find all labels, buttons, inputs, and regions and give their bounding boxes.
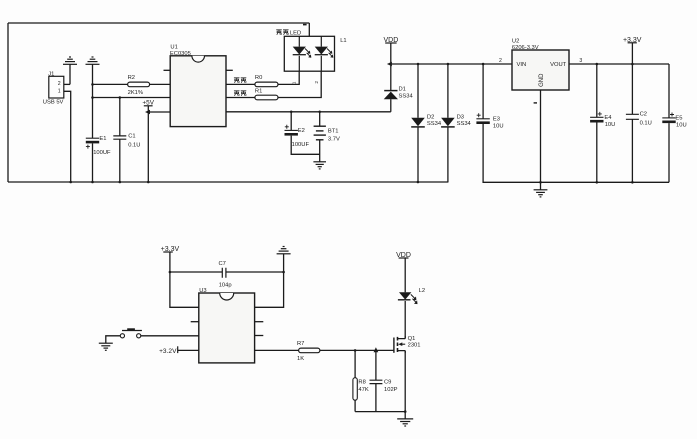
- junction dot C1 top: [119, 96, 122, 99]
- svg-text:10U: 10U: [605, 122, 616, 128]
- svg-text:U1: U1: [170, 44, 177, 50]
- wire U1 pin row3 to +5V: [148, 111, 170, 113]
- svg-text:2301: 2301: [408, 342, 421, 348]
- capacitor E5 10U: [662, 113, 686, 129]
- ground at Q1: [397, 419, 413, 426]
- svg-text:E3: E3: [493, 116, 500, 122]
- svg-text:10U: 10U: [676, 123, 687, 129]
- arrow terminal at +5V node: [145, 110, 150, 115]
- wire bottom rail A: [8, 181, 448, 183]
- op-chip U1 EC0305: [170, 44, 226, 126]
- wire +5V stem down to rail: [147, 106, 149, 182]
- svg-text:E4: E4: [604, 115, 612, 121]
- wire Q1 ground stem: [404, 412, 406, 419]
- label charge (CJK): [234, 78, 240, 83]
- wire E2 stem top: [290, 112, 292, 131]
- svg-text:1K: 1K: [297, 356, 304, 362]
- svg-text:102P: 102P: [384, 387, 398, 393]
- LED L2: [398, 258, 425, 339]
- wire button to U3: [141, 335, 199, 337]
- wire U1 pin4 row (battery net): [226, 111, 391, 113]
- wire VDD rail: [391, 63, 512, 65]
- svg-text:6206-3.3V: 6206-3.3V: [512, 45, 539, 51]
- svg-text:USB 5V: USB 5V: [43, 99, 64, 105]
- pin label 3 on LED box top: [303, 24, 307, 26]
- svg-text:104p: 104p: [219, 282, 232, 288]
- wire J1 pin2 stub: [64, 83, 70, 85]
- wire C7 row right: [226, 271, 284, 273]
- wire U3 right stub pin b: [255, 335, 264, 337]
- junction dots on bottom rail A: [69, 181, 419, 184]
- ground G2 (E1 branch): [86, 57, 100, 64]
- wire C1 stem top: [119, 98, 121, 136]
- wire U2 GND stem: [540, 90, 542, 190]
- svg-text:10U: 10U: [493, 123, 504, 129]
- diode D3 SS34: [441, 64, 471, 182]
- capacitor E3 10U: [476, 113, 503, 129]
- svg-text:100UF: 100UF: [292, 142, 310, 148]
- wire LED box top feed: [308, 23, 310, 36]
- wire C2 stem top: [631, 64, 633, 114]
- svg-text:3: 3: [579, 58, 582, 64]
- capacitor C7 104p: [219, 261, 232, 288]
- wire E3 bottom + rail B: [483, 124, 669, 182]
- wire button to ground: [106, 336, 121, 343]
- wire VDD stem: [390, 43, 392, 64]
- battery BT1 3.7V: [314, 112, 340, 162]
- svg-text:D1: D1: [399, 87, 406, 93]
- junction dot BT1 top: [318, 111, 321, 114]
- wire E4 stem top: [596, 64, 598, 117]
- svg-text:C9: C9: [384, 380, 391, 386]
- arrow terminal at VDD rail start: [387, 62, 392, 67]
- mcu U3: [199, 288, 255, 363]
- svg-text:+3.2V: +3.2V: [159, 348, 177, 355]
- svg-text:SS34: SS34: [399, 93, 414, 99]
- svg-text:VIN: VIN: [517, 62, 527, 68]
- capacitor C9 102P: [370, 350, 398, 411]
- wire +3.3V stem: [631, 43, 633, 64]
- ground G1 (at J1 pin2): [63, 57, 77, 64]
- svg-text:R7: R7: [297, 341, 304, 347]
- svg-text:D2: D2: [427, 114, 434, 120]
- resistor R0: [255, 75, 278, 87]
- resistor R8 47K: [353, 350, 369, 411]
- wire U1 left stub pin: [164, 69, 171, 71]
- svg-text:U3: U3: [199, 288, 206, 294]
- diode D2 SS34: [411, 64, 442, 182]
- svg-text:D3: D3: [457, 114, 464, 120]
- svg-text:GND: GND: [539, 73, 545, 87]
- wire +3.2V to U3: [178, 349, 199, 351]
- svg-text:2: 2: [499, 58, 502, 64]
- svg-text:2: 2: [314, 81, 320, 84]
- wire +3.3V stem to C7 row: [170, 252, 199, 307]
- junction dots on VDD rail: [417, 63, 485, 66]
- wire U3 right stub pin a: [255, 321, 264, 323]
- svg-text:L1: L1: [340, 38, 346, 44]
- wire U3 to R7: [255, 349, 299, 351]
- wire gnd G1 stem: [69, 64, 71, 84]
- wire E4 bottom: [596, 123, 598, 183]
- junction dot C7 right: [282, 271, 285, 274]
- wire R2 to U1: [150, 83, 171, 85]
- capacitor C2 0.1U: [626, 112, 652, 127]
- wire U1 right stub pin: [226, 69, 233, 71]
- svg-text:0.1U: 0.1U: [640, 121, 652, 127]
- LED D-a inside L1: [293, 36, 312, 71]
- wire E5 stem top: [668, 64, 670, 118]
- svg-text:LED: LED: [290, 31, 301, 37]
- push button S1: [120, 328, 142, 338]
- wire E5 bottom: [668, 123, 670, 182]
- svg-text:C1: C1: [128, 133, 135, 139]
- junction dot R8 top: [354, 349, 357, 352]
- svg-text:SS34: SS34: [457, 121, 472, 127]
- power VDD symbol: [384, 37, 399, 44]
- wire U3 left stub pin: [191, 321, 199, 323]
- transistor Q1 2301 MOSFET: [394, 336, 421, 353]
- capacitor E1 100UF: [86, 136, 111, 156]
- power +3.2V port at U3: [159, 346, 178, 355]
- svg-text:E2: E2: [298, 128, 305, 134]
- svg-text:R0: R0: [255, 75, 262, 81]
- wire bottom row (R8/C9 feet): [355, 411, 405, 413]
- resistor R7 1K: [297, 341, 320, 362]
- wire C2 stem bottom: [631, 119, 633, 182]
- svg-text:1: 1: [292, 81, 298, 84]
- LED module L1 (charge LED): [276, 30, 346, 71]
- wire VOUT rail: [569, 63, 669, 65]
- wire C1 stem bottom: [119, 139, 121, 182]
- svg-text:EC0305: EC0305: [170, 51, 191, 57]
- capacitor E2 100UF: [285, 125, 310, 148]
- resistor R1: [255, 88, 278, 99]
- svg-text:R1: R1: [255, 88, 262, 94]
- junction dots on rail B: [539, 181, 634, 184]
- junction dot E2 top: [290, 111, 293, 114]
- connector J1 USB 5V: [43, 71, 64, 105]
- svg-text:J1: J1: [48, 71, 54, 77]
- wire R2 row left: [93, 83, 128, 85]
- svg-text:100UF: 100UF: [93, 150, 111, 156]
- ground at button: [99, 343, 113, 350]
- diode D1 SS34 (cathode up): [384, 64, 414, 112]
- wire Q1 source down: [404, 351, 406, 412]
- wire R0 to LED1 stub: [278, 71, 299, 84]
- junction dot row2: [91, 96, 94, 99]
- resistor R2 2K1%: [128, 75, 150, 96]
- svg-text:0.1U: 0.1U: [128, 142, 140, 148]
- wire U1 to R1: [226, 97, 255, 99]
- svg-text:L2: L2: [419, 288, 425, 294]
- svg-text:47K: 47K: [358, 387, 368, 393]
- ground at BT1: [313, 162, 326, 169]
- svg-text:R8: R8: [358, 380, 365, 386]
- ground at U2: [534, 190, 548, 197]
- wire U1 to R0: [226, 83, 255, 85]
- wire C7 row left: [170, 271, 222, 273]
- wire R1 to LED2 stub: [278, 71, 321, 97]
- svg-text:2K1%: 2K1%: [128, 90, 143, 96]
- capacitor E4 10U: [590, 112, 615, 128]
- capacitor C1 0.1U: [113, 133, 140, 148]
- svg-text:C2: C2: [640, 112, 647, 118]
- junction dot R2 row: [91, 83, 94, 86]
- svg-text:R2: R2: [128, 75, 135, 81]
- svg-text:VOUT: VOUT: [550, 62, 567, 68]
- LED D-b inside L1: [315, 36, 334, 71]
- wire top rail (net to LED box): [8, 22, 309, 24]
- power VDD symbol (bottom): [396, 252, 411, 259]
- wire U1 pin row2 to G2 branch: [93, 97, 171, 99]
- power +5V symbol: [142, 100, 154, 107]
- svg-text:E5: E5: [675, 116, 682, 122]
- wire E3 stem top: [482, 64, 484, 119]
- svg-text:2: 2: [58, 81, 61, 87]
- junction dots VOUT rail: [596, 63, 634, 66]
- power +3.3V symbol (bottom): [161, 246, 180, 253]
- svg-text:E1: E1: [99, 136, 106, 142]
- arrow terminal at C9 node: [374, 347, 379, 352]
- wire E2 bottom to BT1 foot: [291, 136, 320, 155]
- pin label 1 (U2 GND): [534, 102, 537, 103]
- power +3.3V symbol (top): [623, 37, 642, 44]
- regulator U2 6206-3.3V: [512, 38, 569, 90]
- svg-text:Q1: Q1: [408, 336, 416, 342]
- svg-text:BT1: BT1: [328, 128, 339, 134]
- wire gnd stem down to U3 right pin1: [255, 254, 284, 307]
- junction dot source foot: [404, 410, 407, 413]
- label full (CJK): [234, 91, 240, 96]
- wire E1 bottom to rail: [92, 143, 94, 182]
- wire left frame drop: [7, 23, 9, 182]
- svg-text:3.7V: 3.7V: [328, 136, 340, 142]
- svg-text:SS34: SS34: [427, 121, 442, 127]
- wire gnd G2 stem down to E1: [92, 64, 94, 138]
- svg-text:U2: U2: [512, 38, 519, 44]
- wire J1 pin1 stub and drop: [64, 91, 71, 182]
- svg-text:1: 1: [58, 88, 61, 94]
- ground (bottom section top): [277, 247, 291, 254]
- wire R7 to gate: [320, 349, 394, 351]
- svg-text:C7: C7: [219, 261, 226, 267]
- junction dot C7 left: [169, 271, 172, 274]
